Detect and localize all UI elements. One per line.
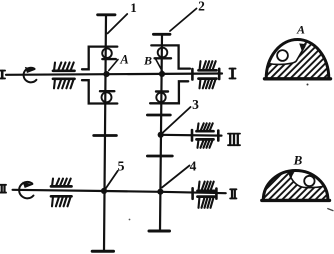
- shaft II: [13, 190, 226, 193]
- shaft II right tick 1: [191, 188, 194, 199]
- gear 2 top cap: [153, 33, 170, 36]
- view B white gap (clutch pocket): [292, 171, 325, 187]
- gear column bottom cap (gear 5): [92, 250, 113, 253]
- section view B: [260, 153, 333, 211]
- bearing shaft I left upper: [53, 63, 75, 71]
- view B roller: [304, 176, 314, 186]
- view B hatched interior: [260, 168, 332, 202]
- bearing shaft III upper: [197, 123, 214, 131]
- bearing shaft II right upper: [198, 182, 215, 191]
- label shaft I right: [230, 69, 236, 79]
- gear 3 on shaft III: node: [158, 132, 164, 138]
- shaft I right tick 1: [191, 69, 194, 80]
- label shaft III (drawn glyph): [228, 134, 240, 146]
- view B base line: [262, 199, 330, 202]
- svg-text:A: A: [296, 23, 305, 37]
- svg-text:1: 1: [130, 0, 137, 15]
- shaft III: [161, 134, 222, 137]
- clutch roller lower-right: [156, 92, 168, 103]
- label shaft II left: [0, 185, 6, 193]
- label shaft II right: [230, 189, 236, 198]
- shaft III tick 1: [191, 130, 194, 141]
- svg-text:5: 5: [118, 160, 125, 175]
- stray mark right of view B: [328, 209, 333, 211]
- clutch bracket lower-right: [150, 81, 188, 103]
- leader line B: [156, 59, 164, 73]
- bearing shaft III lower: [197, 139, 214, 147]
- shaft II right tick 2: [215, 189, 218, 199]
- label 1: [130, 0, 137, 15]
- label 4: [190, 159, 197, 174]
- shaft I: [6, 74, 222, 75]
- clutch A roller upper: [102, 48, 116, 59]
- bearing shaft II right lower: [198, 197, 215, 208]
- clutch bracket lower-left: [82, 80, 117, 103]
- label 2: [198, 0, 205, 14]
- shaft III tick 2: [217, 131, 220, 141]
- bearing shaft I right lower: [199, 79, 217, 89]
- stray speck: [129, 219, 131, 221]
- clutch B roller upper: [155, 48, 171, 59]
- leader line 1: [108, 14, 128, 33]
- label 5: [118, 160, 125, 175]
- leader line 5: [105, 171, 118, 190]
- view A hatched interior: [263, 36, 333, 82]
- view B pawl: [288, 172, 295, 179]
- stray dot under view A: [307, 84, 309, 86]
- section view A: [263, 23, 333, 86]
- leader line A: [109, 60, 118, 71]
- node B on shaft I: [159, 71, 165, 77]
- gear 3 upper cap: [147, 114, 170, 117]
- bearing shaft I right upper: [199, 61, 217, 70]
- svg-text:4: 4: [190, 159, 197, 174]
- node gear4 on shaft II: [157, 189, 163, 195]
- label A (diagram): [119, 53, 128, 67]
- gear 3 lower cap: [147, 155, 172, 158]
- bearing shaft II left lower: [51, 196, 72, 206]
- gear 4 bottom cap: [149, 230, 170, 233]
- shaft I right tick 2: [218, 69, 221, 79]
- rotation arrow on shaft I: [24, 67, 37, 82]
- gear 2 column (right vertical): [160, 34, 162, 231]
- svg-text:2: 2: [198, 0, 205, 14]
- view A white gap (clutch pocket): [268, 40, 305, 64]
- svg-text:B: B: [293, 153, 303, 168]
- view A cam boundary: [268, 46, 305, 64]
- rotation arrow on shaft II: [19, 182, 34, 199]
- label 3: [192, 97, 199, 112]
- view A base line: [265, 77, 331, 80]
- node A on shaft I: [103, 71, 109, 77]
- view A pawl: [299, 43, 307, 50]
- label B (diagram): [143, 54, 152, 68]
- view B cam boundary: [292, 179, 325, 188]
- view B outer ring: [263, 171, 328, 201]
- svg-text:B: B: [143, 54, 152, 68]
- bearing shaft I left lower: [53, 79, 75, 89]
- clutch roller lower-left: [100, 91, 114, 102]
- gear 1 top cap: [98, 13, 115, 16]
- svg-text:A: A: [119, 53, 128, 67]
- leader line 3: [162, 107, 191, 134]
- gear 1 column (left vertical): [104, 15, 106, 251]
- leader line 4: [162, 166, 190, 188]
- bearing shaft II left upper: [51, 179, 72, 187]
- node gear5 on shaft II: [101, 188, 107, 194]
- label shaft I left: [0, 71, 5, 79]
- clutch A bracket upper: [82, 47, 117, 70]
- clutch B bracket upper: [151, 45, 190, 68]
- view A roller: [277, 50, 288, 61]
- tick on left column (gear 5 upper cap): [94, 134, 117, 137]
- leader line 2: [170, 9, 197, 32]
- view A outer ring: [266, 40, 329, 79]
- svg-text:3: 3: [192, 97, 199, 112]
